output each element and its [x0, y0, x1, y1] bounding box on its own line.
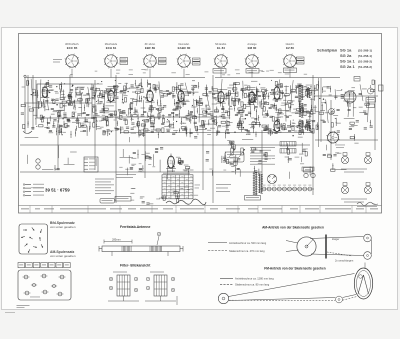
transformer winding T-out-c — [299, 120, 304, 133]
filter box label — [297, 57, 305, 60]
filter box label — [120, 58, 128, 61]
UKW tuner box — [37, 84, 92, 118]
tube socket view EM 80 — [245, 54, 260, 69]
svg-text:EL 84: EL 84 — [217, 46, 225, 50]
tube socket view ECH 81 — [104, 54, 119, 69]
voltage selector — [267, 174, 276, 183]
filter box label — [159, 58, 167, 61]
svg-text:EABC 80: EABC 80 — [178, 46, 191, 50]
wire verticals right — [318, 78, 320, 147]
svg-text:EZ 80: EZ 80 — [286, 46, 294, 50]
label UKW-Teil — [53, 59, 62, 60]
title block: Schaltplan — [317, 48, 372, 70]
svg-text:ECC 85: ECC 85 — [67, 46, 78, 50]
box label — [115, 197, 131, 202]
coil arc L1 — [23, 131, 32, 134]
magic eye EM80 — [344, 91, 356, 107]
right column parts — [368, 88, 374, 94]
label box — [284, 68, 297, 73]
svg-text:(51-268-1): (51-268-1) — [358, 48, 372, 52]
transformer winding mains-a — [253, 172, 258, 195]
filter view 1 — [108, 272, 139, 302]
svg-text:Antriebsschnur ca. 520 mm lan: Antriebsschnur ca. 520 mm lang — [229, 241, 267, 245]
svg-text:SG 1a 1: SG 1a 1 — [340, 59, 355, 64]
wire bus ground — [20, 171, 262, 173]
svg-text:(51-258-1): (51-258-1) — [358, 54, 372, 58]
wire bus anode supply — [315, 95, 378, 97]
tube socket view EBF 89 — [143, 54, 158, 69]
tube socket view EZ 80 — [283, 54, 298, 69]
push button row — [18, 263, 70, 268]
svg-text:Schaltplan: Schaltplan — [317, 48, 338, 53]
phono sockets — [36, 159, 40, 163]
filter view 2 — [145, 272, 177, 306]
netz label block — [216, 184, 231, 185]
wire bus mid1 — [95, 116, 213, 118]
AM coil pack box — [18, 270, 71, 300]
wire bus agc — [20, 144, 310, 146]
signature handwriting — [357, 202, 378, 205]
speakers group 1 — [341, 153, 372, 173]
tube socket view Vx — [326, 131, 339, 144]
svg-text:Filter- Blickansicht: Filter- Blickansicht — [120, 264, 151, 268]
svg-text:von unten gesehen: von unten gesehen — [50, 254, 76, 258]
tube V9 EABC80 — [166, 154, 176, 169]
notes list mid — [250, 147, 275, 165]
netzschalter box — [245, 196, 261, 201]
tube socket view EABC 80 — [177, 54, 192, 69]
svg-text:SG 2a: SG 2a — [340, 53, 352, 58]
section: Bfd-Spulensatz label — [50, 221, 76, 229]
note text block mid-left — [116, 174, 136, 175]
svg-text:von unten gesehen: von unten gesehen — [50, 225, 76, 229]
label box — [213, 69, 226, 74]
svg-text:39 51 · 6759: 39 51 · 6759 — [45, 188, 70, 193]
transformer winding T-out-b — [299, 103, 304, 117]
circled 2 pointer — [157, 232, 161, 236]
transformer winding T-out-e — [306, 121, 311, 131]
wire bus mid2 — [120, 132, 310, 134]
heater chain — [260, 185, 314, 191]
legend list left — [23, 184, 44, 196]
Bfd coil pack box — [19, 224, 48, 254]
small chokes bottom-left of speakers — [304, 173, 308, 177]
FM drive drawing — [218, 263, 372, 304]
page footer mark — [17, 305, 30, 306]
label box anzeige — [354, 77, 360, 82]
handwriting annotation — [166, 199, 206, 205]
tube V3 — [145, 88, 154, 102]
connector block — [84, 157, 98, 172]
svg-text:Ferritstab-Antenne: Ferritstab-Antenne — [120, 225, 150, 229]
antenna input — [23, 75, 33, 80]
main schematic wiring network — [20, 75, 378, 203]
ferrite rod — [99, 246, 183, 256]
schematic border frame — [19, 34, 382, 214]
svg-text:SG 2a 1: SG 2a 1 — [340, 64, 355, 69]
label box — [246, 69, 259, 74]
frame-edge connector box — [379, 85, 384, 91]
wire bus heater — [24, 102, 92, 104]
FM legend — [220, 277, 274, 287]
svg-text:(51-258-2): (51-258-2) — [358, 65, 372, 69]
tone switch block — [225, 152, 244, 162]
tube socket view ECC 85 — [65, 54, 80, 69]
svg-text:(51-268-2): (51-268-2) — [358, 59, 372, 63]
parts list strip — [19, 206, 382, 214]
trimmer with arrow — [329, 109, 335, 115]
mains voltage box 220V — [304, 168, 313, 173]
svg-text:Skalenschnur ca. 470 mm lang: Skalenschnur ca. 470 mm lang — [229, 249, 265, 253]
document number 39 51 - 6759 — [31, 186, 44, 189]
svg-text:SG 1a: SG 1a — [340, 48, 352, 53]
svg-text:Skalenschnur ca. 80 mm lang: Skalenschnur ca. 80 mm lang — [235, 283, 270, 287]
svg-text:ECH 81: ECH 81 — [106, 46, 117, 50]
svg-text:285mm: 285mm — [112, 238, 121, 242]
wire bus top — [24, 77, 205, 79]
svg-text:2x umschlungen: 2x umschlungen — [335, 260, 354, 263]
tube V7 EL84 — [273, 84, 282, 100]
output transformer — [280, 142, 296, 154]
component clusters band — [21, 69, 375, 205]
svg-text:Zeiger: Zeiger — [332, 237, 339, 241]
filter box label — [193, 58, 201, 61]
transformer winding mains-b — [258, 174, 263, 194]
wire vertical runs — [24, 80, 26, 133]
tube socket view EL 84 — [214, 54, 229, 69]
tube V1a — [41, 84, 50, 97]
tube V2 — [106, 88, 115, 102]
AM drive drawing — [286, 234, 371, 262]
svg-text:AM-Antrieb von der Skalenseite: AM-Antrieb von der Skalenseite gesehen — [262, 226, 324, 230]
notes paragraph — [95, 179, 114, 195]
scan margin mark — [5, 312, 15, 313]
dimension arrow 285mm — [104, 238, 132, 244]
potentiometers — [229, 148, 245, 157]
transformer winding T-out-a — [299, 85, 304, 100]
svg-text:Antriebsschnur ca. 1280 mm la: Antriebsschnur ca. 1280 mm lang — [235, 277, 274, 281]
svg-text:FM-Antrieb von der Skalenseite: FM-Antrieb von der Skalenseite gesehen — [264, 267, 326, 271]
tube V4 — [176, 88, 185, 102]
svg-text:EM 80: EM 80 — [248, 46, 257, 50]
transformer winding T-out-d — [306, 88, 311, 98]
tube V6 — [248, 89, 257, 102]
speakers group 2 — [341, 183, 372, 203]
tube V5 — [216, 89, 225, 103]
section: AM-Spulensatz label — [50, 250, 76, 258]
switch contact table — [162, 173, 200, 199]
stamp box — [100, 199, 115, 204]
svg-text:EBF 89: EBF 89 — [145, 46, 156, 50]
tube V8 — [273, 118, 282, 132]
AM legend — [208, 241, 267, 253]
